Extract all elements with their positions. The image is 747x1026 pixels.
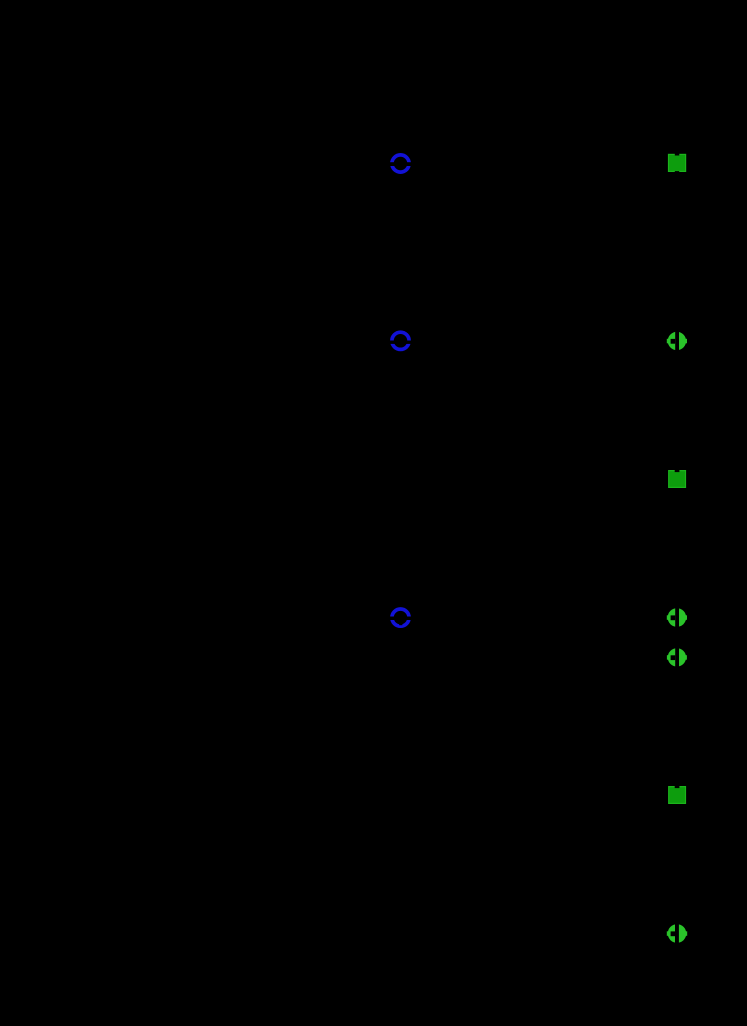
wire (vertical, crossing LED D4) xyxy=(675,607,679,629)
wire (vertical, crossing LED D2) xyxy=(675,331,679,352)
wire (horizontal, crossing lamp L2) xyxy=(386,341,415,344)
wire (horizontal, crossing lamp L3) xyxy=(386,617,415,621)
indicator D3 (green square) xyxy=(668,470,686,488)
indicator D1 (green square) xyxy=(668,154,686,172)
lamp L3 (blue circle indicator) xyxy=(392,609,409,626)
wire (horizontal, crossing lamp L1) xyxy=(386,162,415,166)
lamp L1 (blue circle indicator) xyxy=(392,155,409,172)
wire (stub entering top of D1) xyxy=(675,153,680,156)
lamp L2 (blue circle indicator) xyxy=(392,332,409,349)
LED D4 (green circular indicator) xyxy=(667,608,687,627)
wire (stub into left half of LED D2) xyxy=(671,339,676,344)
wire (stub into left half of LED D5) xyxy=(671,655,676,660)
LED D2 (green circular indicator) xyxy=(667,332,687,350)
wire (stub at bottom of lamp L3) xyxy=(399,621,402,625)
wire (stub entering top of D6) xyxy=(675,785,680,788)
wire (stub into left half of LED D7) xyxy=(671,931,675,936)
wire (stub entering top of D3) xyxy=(675,469,680,472)
LED D7 (green circular indicator) xyxy=(667,924,687,943)
indicator D6 (green square) xyxy=(668,786,686,804)
wire (stub leaving bottom of D1) xyxy=(675,171,679,173)
wire (stub into left half of LED D4) xyxy=(671,615,676,620)
wire (vertical, crossing LED D7) xyxy=(675,923,679,944)
wire (vertical, crossing LED D5) xyxy=(675,647,679,668)
LED D5 (green circular indicator) xyxy=(667,648,687,666)
